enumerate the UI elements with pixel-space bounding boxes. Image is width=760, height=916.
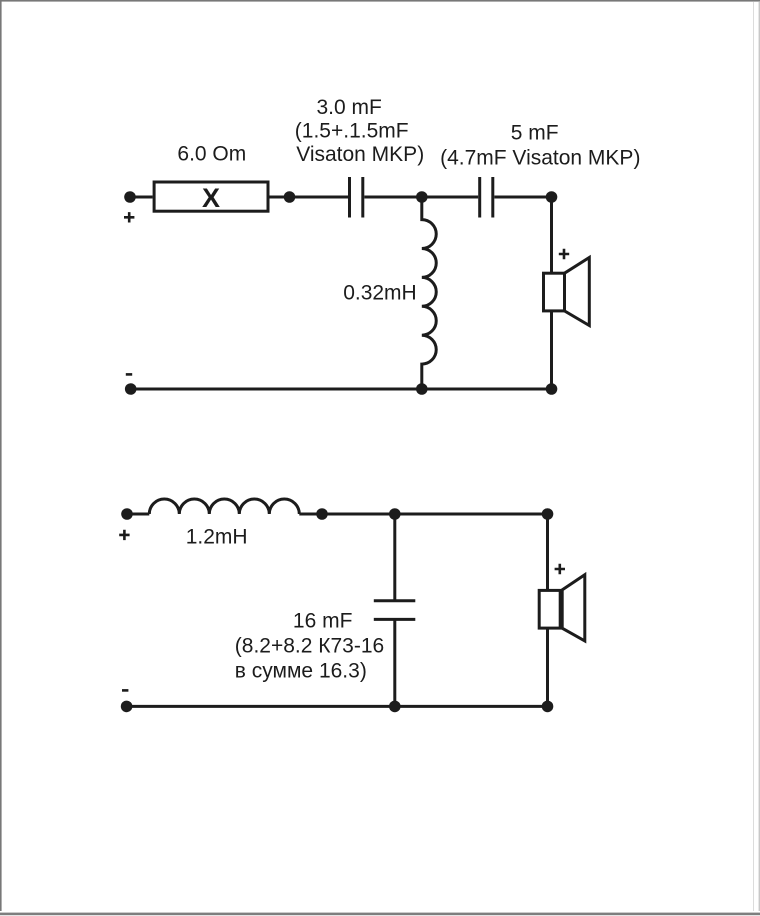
svg-text:Visaton MKP): Visaton MKP) — [296, 143, 424, 166]
svg-text:в сумме 16.3): в сумме 16.3) — [235, 659, 367, 682]
svg-text:16 mF: 16 mF — [293, 610, 353, 633]
svg-text:(1.5+.1.5mF: (1.5+.1.5mF — [295, 120, 409, 143]
svg-text:0.32mH: 0.32mH — [343, 282, 417, 305]
svg-text:3.0 mF: 3.0 mF — [317, 96, 382, 119]
svg-text:X: X — [202, 183, 220, 213]
svg-text:6.0 Om: 6.0 Om — [177, 143, 246, 166]
svg-text:(4.7mF Visaton MKP): (4.7mF Visaton MKP) — [440, 147, 640, 170]
svg-text:5 mF: 5 mF — [511, 122, 559, 145]
svg-text:1.2mH: 1.2mH — [186, 526, 248, 549]
svg-text:(8.2+8.2 К73-16: (8.2+8.2 К73-16 — [235, 635, 384, 658]
